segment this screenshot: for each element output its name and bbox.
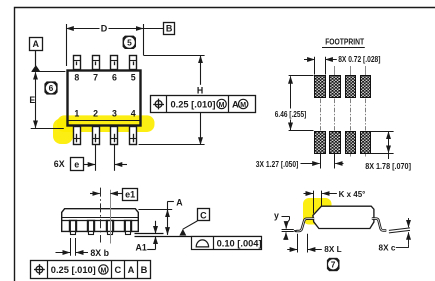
svg-text:8X b: 8X b [90, 248, 109, 258]
svg-text:M: M [100, 267, 106, 274]
end view right lead [372, 219, 387, 231]
svg-text:6X: 6X [54, 159, 65, 169]
dimension H [139, 56, 205, 145]
svg-text:0.25 [.010]: 0.25 [.010] [51, 265, 96, 275]
svg-text:e: e [74, 159, 79, 169]
svg-text:H: H [197, 85, 203, 95]
pad centerline stubs above [335, 66, 366, 75]
body top edge extension line [32, 71, 66, 73]
dimension 3X 1.27 [301, 152, 344, 169]
bottom pin 2 [92, 127, 99, 145]
dimension 8X 1.78 [370, 132, 393, 160]
bottom pin 3 [111, 127, 118, 145]
svg-text:0.10 [.004]: 0.10 [.004] [217, 239, 262, 249]
datum C leader [183, 221, 198, 229]
dimension A [138, 209, 172, 211]
svg-text:C: C [114, 265, 121, 275]
dimension 8X 0.72 [304, 57, 337, 75]
footprint pads bottom row [315, 132, 326, 154]
svg-text:e1: e1 [125, 190, 135, 200]
svg-text:A1: A1 [136, 242, 147, 252]
svg-text:8: 8 [74, 72, 79, 82]
dimension 6X e [83, 145, 127, 171]
top pin 7 [92, 56, 99, 70]
svg-text:8X 0.72 [.028]: 8X 0.72 [.028] [338, 55, 381, 64]
seating plane flatness frame [192, 237, 262, 250]
svg-text:0.25 [.010]: 0.25 [.010] [171, 100, 216, 110]
highlight band top view [57, 115, 155, 132]
bottom pin 4 [130, 127, 137, 145]
note bubble 7 [325, 256, 342, 274]
svg-text:M: M [219, 102, 225, 109]
dimension 8X L [287, 234, 322, 253]
svg-text:A: A [176, 198, 183, 208]
seating plane line [135, 236, 263, 238]
lead3 centerline [110, 190, 112, 244]
svg-text:A: A [232, 100, 239, 110]
svg-text:A: A [33, 39, 40, 49]
front lead 4 [125, 220, 132, 234]
dimension 8X b [56, 238, 89, 256]
svg-text:E: E [29, 95, 35, 105]
svg-text:7: 7 [93, 72, 98, 82]
highlight blob top view left [53, 119, 73, 145]
package body top view [68, 71, 141, 126]
top pin 5 [130, 56, 137, 70]
svg-text:3: 3 [112, 109, 117, 119]
dimension 8X c [389, 218, 410, 248]
svg-text:4: 4 [131, 109, 136, 119]
svg-text:K x 45°: K x 45° [339, 190, 366, 199]
dimension e1 [90, 193, 123, 195]
svg-text:B: B [141, 265, 148, 275]
dimension K x 45 [304, 191, 337, 214]
svg-text:3X 1.27 [.050]: 3X 1.27 [.050] [256, 160, 299, 169]
svg-text:FOOTPRINT: FOOTPRINT [325, 37, 364, 46]
svg-text:5: 5 [131, 72, 136, 82]
datum A leader and triangle [35, 51, 37, 67]
svg-text:y: y [274, 211, 279, 221]
pin1 side chamfer line [68, 120, 140, 122]
pad stubs below [351, 153, 366, 156]
datum C box [198, 209, 210, 221]
front lead 3 [107, 220, 114, 234]
front view body [62, 209, 139, 232]
dimension 6.46 [289, 76, 314, 131]
datum C triangle [179, 229, 186, 236]
note bubble 6 [42, 79, 60, 97]
package centerline [100, 188, 102, 243]
top pin 8 [73, 56, 80, 70]
svg-text:6: 6 [49, 83, 54, 93]
end view body [313, 206, 374, 228]
footprint pads top row [315, 76, 326, 98]
svg-text:D: D [101, 24, 108, 34]
svg-text:M: M [240, 102, 246, 109]
bottom pin 1 [73, 127, 80, 145]
dimension E [35, 72, 37, 128]
svg-text:A: A [128, 265, 135, 275]
note bubble 5 [120, 33, 138, 51]
feature control frame position 0.25 A [151, 96, 256, 113]
datum A box [30, 38, 43, 51]
svg-text:6: 6 [112, 72, 117, 82]
top pin 6 [111, 56, 118, 70]
datum target B box [164, 23, 175, 35]
front lead 2 [88, 220, 95, 234]
svg-text:2: 2 [93, 109, 98, 119]
dimension A1 [147, 221, 155, 250]
svg-text:C: C [200, 210, 207, 220]
svg-text:B: B [166, 24, 173, 34]
lead bottom extension line [135, 233, 164, 235]
svg-text:8X 1.78 [.070]: 8X 1.78 [.070] [365, 162, 411, 171]
svg-text:5: 5 [127, 37, 132, 47]
front lead 1 [70, 220, 77, 234]
highlight blob end view [303, 198, 332, 225]
end view left lead [295, 219, 314, 231]
pad centerlines dashed [321, 99, 366, 131]
body bottom edge extension line [31, 128, 64, 130]
svg-text:6.46 [.255]: 6.46 [.255] [275, 110, 307, 119]
svg-text:8X c: 8X c [379, 244, 396, 253]
svg-text:8X L: 8X L [324, 245, 341, 254]
dimension D [66, 24, 163, 66]
feature control frame position 0.25 CAB [31, 261, 151, 279]
svg-text:1: 1 [74, 109, 79, 119]
svg-text:7: 7 [331, 259, 336, 269]
